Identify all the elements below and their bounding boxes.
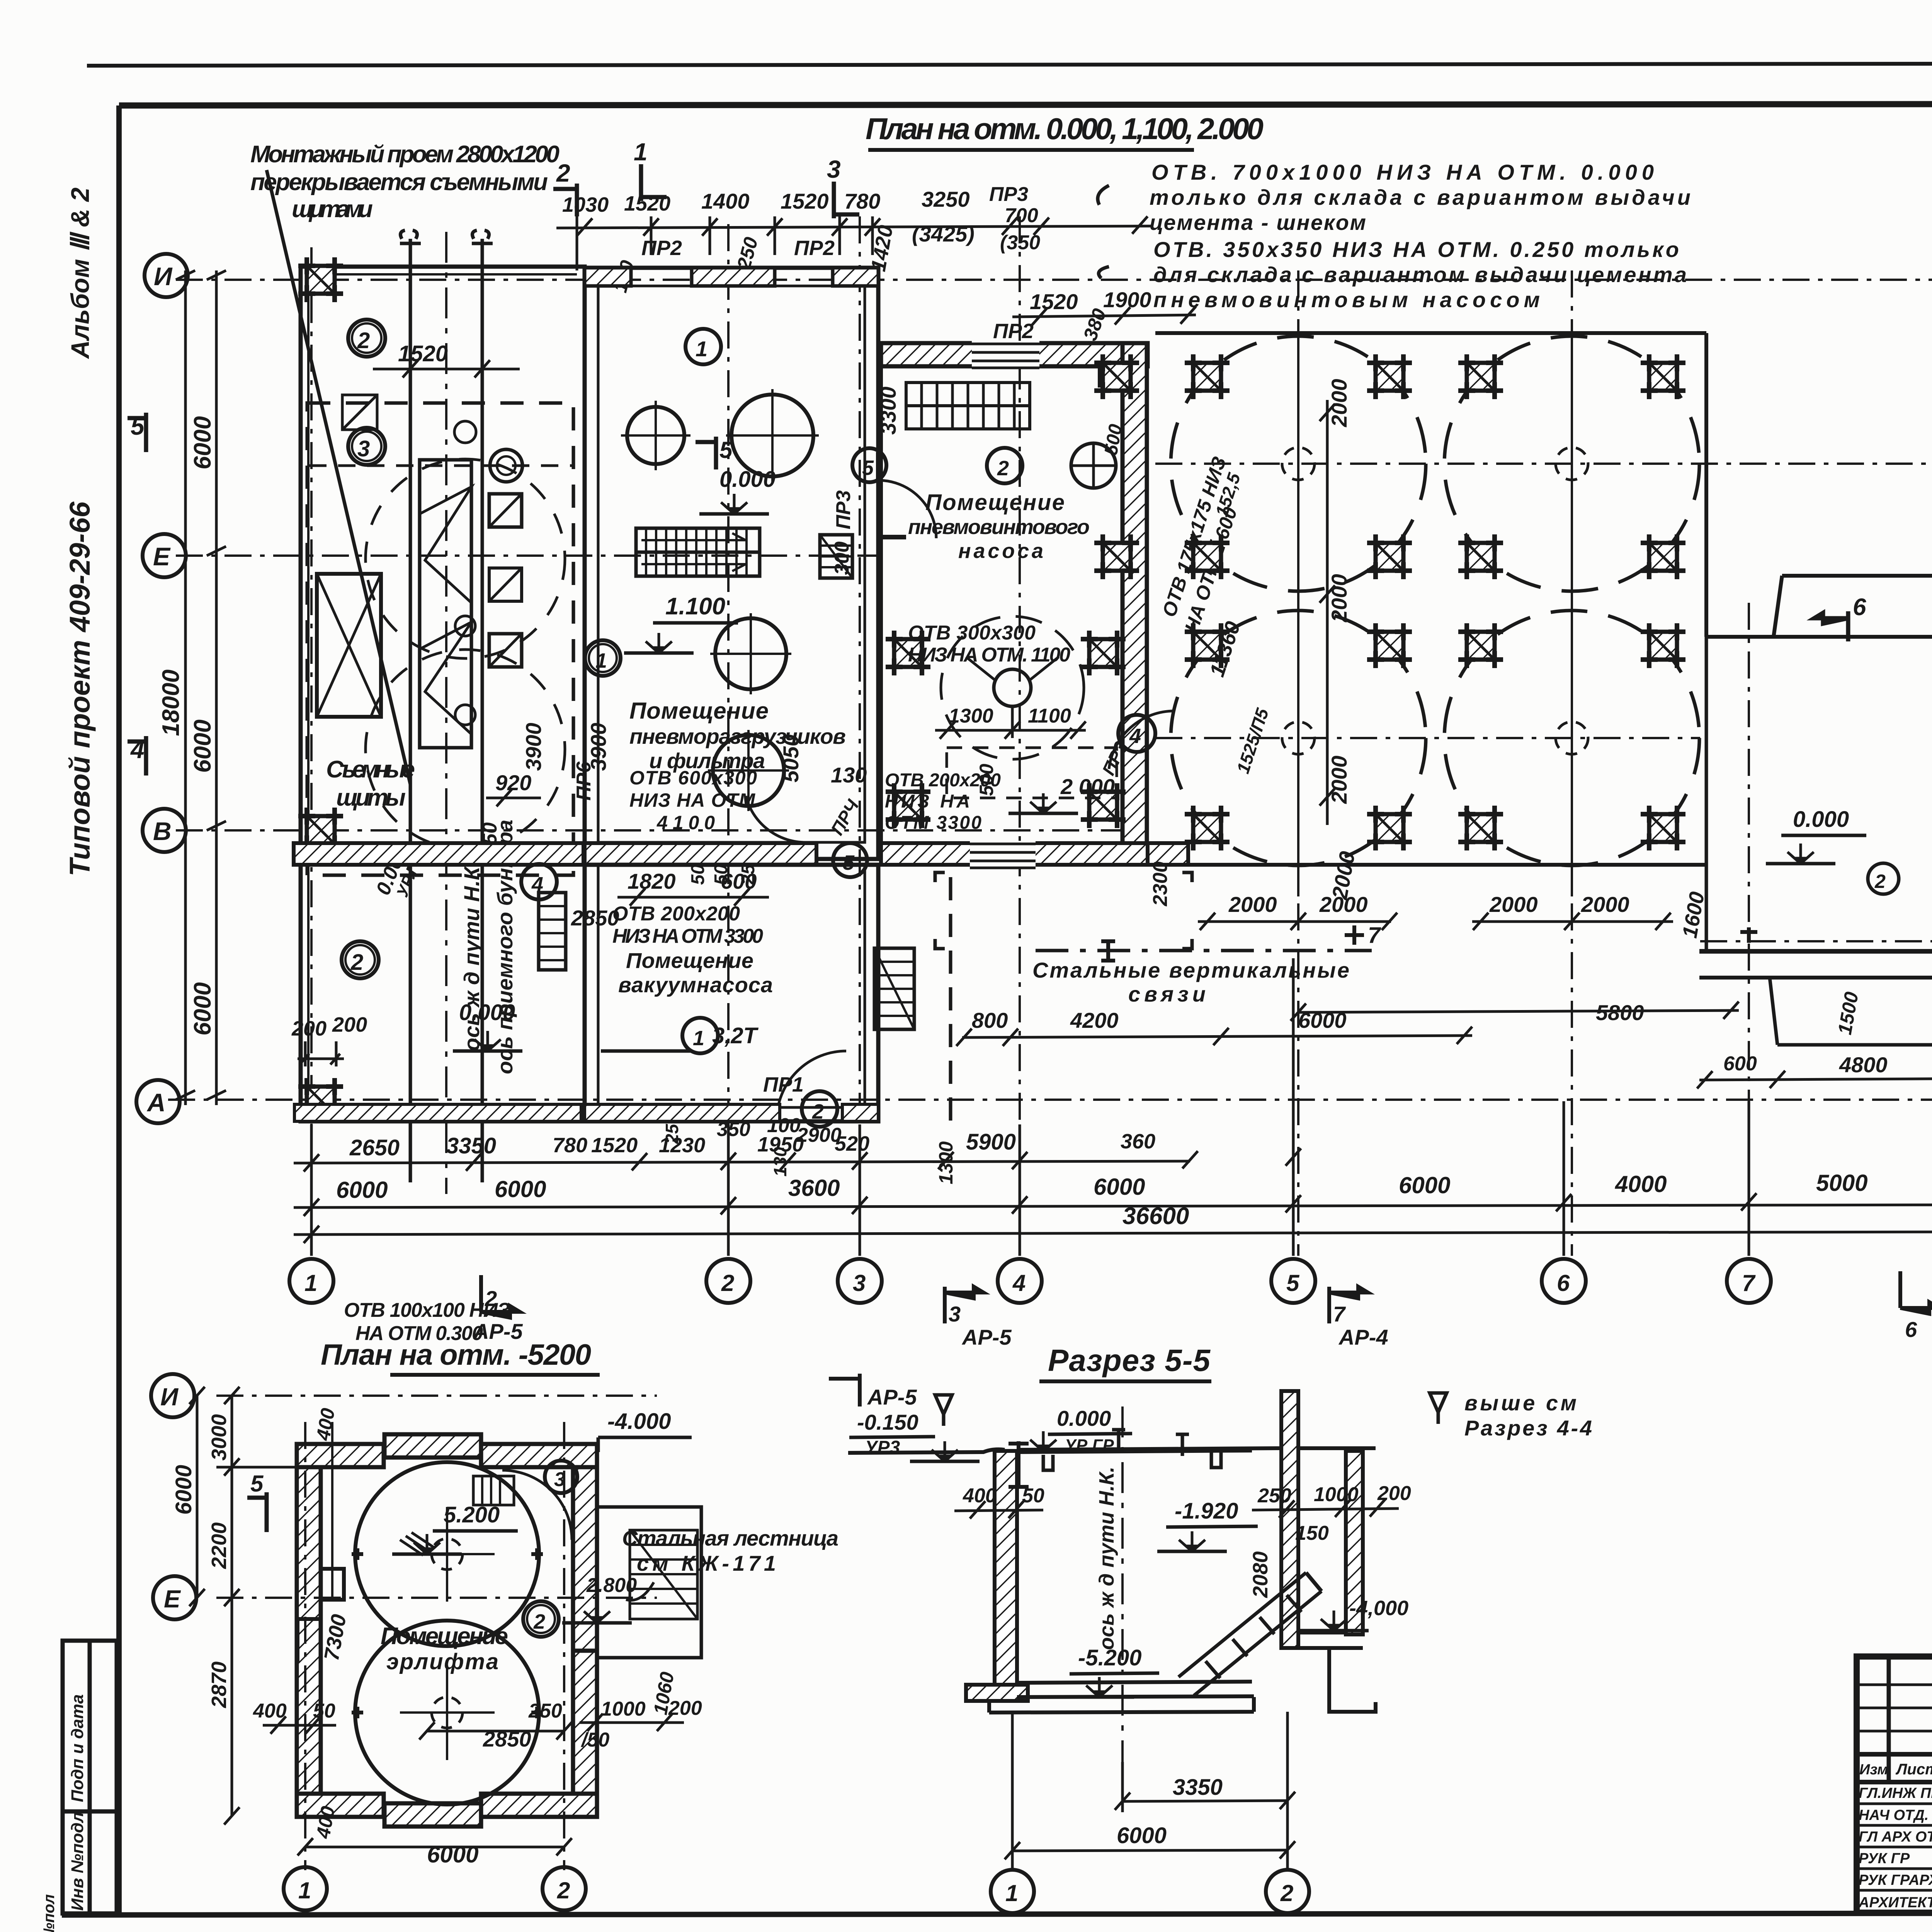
svg-text:800: 800 [972,1008,1008,1032]
svg-text:1: 1 [634,138,648,166]
svg-text:150: 150 [1295,1522,1329,1544]
svg-text:7: 7 [1368,923,1381,948]
svg-text:920: 920 [495,770,531,795]
svg-text:36600: 36600 [1122,1203,1189,1230]
svg-text:Разрез 5-5: Разрез 5-5 [1048,1343,1211,1378]
svg-text:1520: 1520 [591,1134,638,1157]
svg-text:см КЖ-171: см КЖ-171 [637,1551,776,1575]
svg-text:130: 130 [831,763,867,787]
svg-text:пневморазгрузчиков: пневморазгрузчиков [629,724,846,748]
svg-text:Е: Е [153,542,171,571]
svg-text:1900: 1900 [1103,287,1151,312]
svg-text:6000: 6000 [1094,1174,1145,1200]
svg-text:План на отм. 0.000, 1,100, 2: План на отм. 0.000, 1,100, 2.000 [866,112,1264,146]
svg-text:50: 50 [1022,1485,1044,1507]
svg-text:6000: 6000 [171,1465,196,1515]
svg-text:5: 5 [1286,1270,1300,1296]
svg-text:2000: 2000 [1489,892,1538,917]
svg-text:Лист: Лист [1895,1761,1932,1778]
svg-text:2000: 2000 [1327,755,1351,804]
svg-text:1: 1 [595,649,607,672]
svg-text:ПР3: ПР3 [832,490,855,529]
svg-text:ОТВ. 350х350 НИЗ НА ОТМ. 0: ОТВ. 350х350 НИЗ НА ОТМ. 0.250 только [1153,237,1679,262]
svg-text:3,2Т: 3,2Т [712,1023,759,1048]
svg-text:ОТВ 200х200: ОТВ 200х200 [612,903,740,925]
svg-text:НАЧ ОТД.: НАЧ ОТД. [1859,1807,1929,1823]
svg-text:эрлифта: эрлифта [386,1649,498,1674]
svg-text:6: 6 [1853,594,1866,621]
svg-text:Монтажный проем 2800х1200: Монтажный проем 2800х1200 [250,141,560,168]
svg-text:6: 6 [1905,1317,1917,1342]
svg-text:5: 5 [250,1471,264,1497]
svg-text:В: В [153,817,172,845]
svg-text:1: 1 [298,1878,311,1903]
svg-text:2: 2 [997,457,1009,480]
svg-text:2850: 2850 [483,1727,531,1751]
svg-text:1520: 1520 [398,341,448,366]
svg-text:0.000: 0.000 [719,467,776,492]
svg-text:2200: 2200 [207,1522,231,1569]
svg-text:А: А [146,1088,166,1117]
svg-text:5: 5 [862,456,874,480]
svg-text:250: 250 [1257,1485,1291,1507]
svg-text:6000: 6000 [336,1177,388,1203]
svg-text:щиты: щиты [336,784,406,811]
svg-text:5800: 5800 [1596,1000,1644,1025]
svg-text:ГЛ АРХ ОТД: ГЛ АРХ ОТД [1859,1829,1932,1845]
svg-text:2000: 2000 [1327,379,1351,427]
svg-text:связи: связи [1128,982,1206,1006]
svg-text:3: 3 [357,436,370,461]
svg-text:1820: 1820 [628,869,676,893]
svg-text:2850: 2850 [571,906,619,930]
svg-text:2: 2 [557,1878,570,1903]
svg-text:1520: 1520 [1030,289,1078,314]
svg-text:Альбом Ⅲ & 2: Альбом Ⅲ & 2 [66,187,94,359]
svg-text:7: 7 [1742,1270,1756,1296]
svg-text:0.000: 0.000 [459,1000,515,1025]
svg-text:50: 50 [313,1700,335,1722]
svg-text:1520: 1520 [624,192,670,215]
svg-text:6000: 6000 [189,982,216,1036]
svg-text:3350: 3350 [1173,1775,1223,1800]
svg-text:И: И [160,1383,179,1411]
svg-text:ПР2: ПР2 [641,236,682,260]
svg-text:780: 780 [844,189,880,213]
svg-text:6000: 6000 [1117,1823,1167,1848]
svg-text:АР-4: АР-4 [1338,1325,1388,1349]
svg-text:6000: 6000 [427,1842,478,1867]
svg-text:200: 200 [291,1017,327,1040]
svg-text:2: 2 [533,1610,545,1633]
svg-text:-0.150: -0.150 [857,1410,918,1434]
svg-text:600: 600 [1723,1053,1757,1075]
svg-text:0.000: 0.000 [1057,1406,1111,1430]
svg-text:1950: 1950 [757,1133,804,1156]
svg-text:4: 4 [1012,1270,1026,1296]
svg-text:1: 1 [304,1270,317,1296]
svg-text:4800: 4800 [1839,1053,1888,1077]
svg-text:ОТВ 100х100 НИЗ: ОТВ 100х100 НИЗ [344,1299,510,1321]
svg-text:перекрывается съемными: перекрывается съемными [250,169,548,196]
svg-text:3: 3 [853,1270,866,1296]
svg-text:1400: 1400 [701,189,750,213]
svg-text:Подп и дата: Подп и дата [68,1694,87,1802]
svg-text:2: 2 [556,159,570,187]
svg-text:3900: 3900 [521,723,546,771]
svg-text:-4.000: -4.000 [607,1409,671,1434]
svg-text:400: 400 [253,1700,287,1722]
svg-text:2: 2 [1874,871,1886,892]
svg-text:УР3: УР3 [865,1437,900,1458]
svg-text:(350: (350 [1000,231,1040,254]
svg-text:700: 700 [1005,204,1038,227]
svg-text:И: И [154,262,173,291]
svg-text:АР-5: АР-5 [961,1325,1012,1349]
svg-text:РУК ГР: РУК ГР [1859,1850,1910,1867]
svg-text:3350: 3350 [446,1133,496,1158]
svg-text:0.000: 0.000 [1793,807,1849,832]
svg-text:3600: 3600 [788,1175,840,1201]
svg-text:1000: 1000 [601,1698,646,1720]
svg-text:520: 520 [835,1132,869,1155]
svg-text:18000: 18000 [158,670,184,736]
svg-text:300: 300 [831,541,853,575]
svg-text:1: 1 [696,337,707,361]
svg-text:5: 5 [131,412,145,440]
svg-text:50: 50 [688,864,708,885]
svg-text:2300: 2300 [1149,861,1172,906]
svg-text:2 000: 2 000 [1060,774,1115,799]
svg-text:4000: 4000 [1615,1171,1667,1197]
svg-text:6: 6 [1557,1270,1570,1296]
svg-text:ПР3: ПР3 [989,183,1028,206]
svg-text:-1.920: -1.920 [1175,1498,1238,1524]
svg-text:2: 2 [350,950,363,975]
svg-text:Типовой проект 409-29-66: Типовой проект 409-29-66 [64,501,96,876]
svg-text:5050: 5050 [779,734,803,782]
svg-text:2.800: 2.800 [586,1574,637,1597]
svg-text:6000: 6000 [189,416,216,469]
svg-text:Инв №подл: Инв №подл [68,1812,87,1911]
svg-text:вакуумнасоса: вакуумнасоса [618,973,773,997]
svg-text:ПР2: ПР2 [993,320,1034,343]
svg-text:7: 7 [1333,1302,1346,1326]
svg-text:200: 200 [332,1013,367,1036]
svg-text:ОТВ 600х300: ОТВ 600х300 [629,767,757,789]
svg-text:(3425): (3425) [912,222,975,246]
svg-text:3: 3 [827,155,841,183]
svg-text:/50: /50 [581,1729,609,1751]
svg-text:4200: 4200 [1070,1008,1119,1032]
svg-text:400: 400 [963,1485,997,1507]
svg-text:-4,000: -4,000 [1349,1597,1408,1620]
svg-text:1.100: 1.100 [665,593,725,620]
svg-text:6000: 6000 [1399,1172,1450,1198]
svg-text:5900: 5900 [966,1129,1016,1155]
svg-text:АР-5: АР-5 [867,1385,917,1409]
svg-text:200: 200 [668,1697,702,1719]
svg-text:Разрез 4-4: Разрез 4-4 [1464,1416,1592,1440]
svg-text:4: 4 [130,736,145,764]
svg-text:6000: 6000 [495,1176,546,1202]
svg-text:2: 2 [1280,1880,1293,1906]
svg-text:2000: 2000 [1581,892,1629,917]
svg-text:2: 2 [357,328,370,353]
svg-text:2000: 2000 [1319,892,1368,917]
svg-text:ПР2: ПР2 [794,236,835,260]
svg-text:1100: 1100 [1028,705,1071,727]
svg-text:-5.200: -5.200 [1078,1645,1141,1670]
svg-text:1: 1 [693,1027,704,1050]
svg-text:600: 600 [721,869,757,893]
svg-text:ОТВ 300х300: ОТВ 300х300 [908,622,1036,644]
svg-text:Е: Е [164,1585,181,1613]
svg-text:360: 360 [1121,1130,1155,1153]
svg-text:ПР6: ПР6 [573,761,595,801]
svg-text:1230: 1230 [659,1134,705,1157]
svg-text:2870: 2870 [207,1662,231,1708]
svg-text:2000: 2000 [1228,892,1277,917]
svg-text:2: 2 [812,1100,824,1123]
svg-text:Помещение: Помещение [626,948,753,973]
svg-text:НИЗ НА ОТМ 3300: НИЗ НА ОТМ 3300 [612,925,763,947]
svg-text:1: 1 [1005,1880,1018,1906]
svg-text:пневмовинтовым насосом: пневмовинтовым насосом [1153,287,1540,312]
svg-text:НИЗ НА ОТМ.: НИЗ НА ОТМ. [629,789,761,811]
svg-text:2650: 2650 [349,1135,400,1160]
svg-text:ось ж д пути Н.К.: ось ж д пути Н.К. [1095,1467,1118,1650]
svg-text:2080: 2080 [1249,1551,1272,1598]
svg-text:Стальная лестница: Стальная лестница [622,1526,838,1550]
svg-text:3000: 3000 [207,1414,231,1461]
svg-text:1300: 1300 [949,705,993,727]
svg-text:5: 5 [719,437,733,463]
svg-text:Помещение: Помещение [381,1623,508,1650]
svg-text:3250: 3250 [922,187,970,211]
svg-text:5000: 5000 [1816,1170,1867,1196]
svg-text:Съемные: Съемные [326,756,415,783]
svg-text:3: 3 [949,1302,961,1326]
svg-text:РУК ГРАРХ: РУК ГРАРХ [1859,1872,1932,1888]
svg-text:1000: 1000 [1314,1483,1359,1506]
svg-text:щитами: щитами [292,196,373,223]
svg-text:НИЗ НА: НИЗ НА [885,791,970,812]
svg-text:Инв №пол: Инв №пол [41,1894,58,1932]
svg-text:2: 2 [721,1270,734,1296]
svg-text:2000: 2000 [1327,574,1351,622]
svg-text:1520: 1520 [781,189,829,213]
svg-text:ГЛ.ИНЖ ПР: ГЛ.ИНЖ ПР [1859,1785,1932,1801]
svg-text:Изм: Изм [1859,1762,1888,1778]
svg-text:пневмовинтового: пневмовинтового [908,515,1090,539]
svg-text:6000: 6000 [189,719,216,773]
svg-text:Помещение: Помещение [629,698,769,724]
svg-text:1030: 1030 [562,193,609,216]
svg-text:НИЗ НА ОТМ. 1100: НИЗ НА ОТМ. 1100 [908,644,1070,666]
svg-text:ОТВ 200х200: ОТВ 200х200 [885,770,1001,791]
svg-text:Помещение: Помещение [925,490,1065,515]
svg-text:780: 780 [553,1134,587,1157]
svg-text:НА ОТМ 0.300: НА ОТМ 0.300 [355,1322,483,1345]
svg-text:250: 250 [528,1700,562,1722]
svg-text:АРХИТЕКТ: АРХИТЕКТ [1858,1895,1932,1911]
svg-text:цемента - шнеком: цемента - шнеком [1150,210,1366,235]
